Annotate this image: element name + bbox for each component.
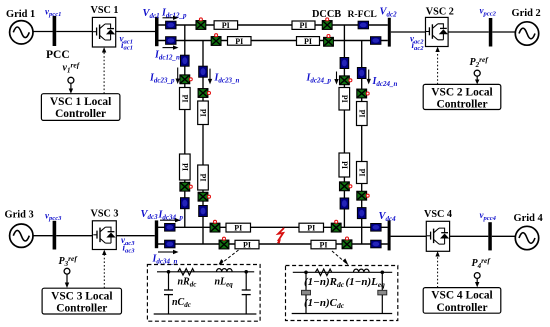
resistor FCL 23p <box>181 55 190 66</box>
resistor FCL 24p lower <box>340 198 349 209</box>
wire G3 to PCC3 <box>33 235 53 237</box>
node PCC bus 1 <box>53 16 57 46</box>
trip indicator <box>208 195 211 198</box>
svg-text:PI: PI <box>199 174 208 182</box>
trip indicator <box>326 18 329 21</box>
capacitor nCdc left <box>164 272 173 314</box>
svg-text:Controller: Controller <box>56 302 107 314</box>
wire VSC1 to DC bus 1 <box>116 31 155 33</box>
converter VSC1 <box>92 17 115 47</box>
resistor FCL 34n left <box>165 240 175 248</box>
resistor R-FCL 12p right <box>358 21 368 29</box>
wire branch 24p vertical <box>343 25 345 227</box>
resistor FCL 24p <box>340 58 349 69</box>
controller VSC1 local <box>41 94 120 121</box>
controller PI 12n right <box>297 37 320 46</box>
svg-text:VSC 4 Local: VSC 4 Local <box>431 290 492 302</box>
svg-text:PI: PI <box>199 109 208 117</box>
arrow Idc24_p <box>334 72 338 85</box>
capacitor 1-nCdc right <box>378 272 387 313</box>
svg-text:R-FCL: R-FCL <box>348 9 377 20</box>
breaker DCCB 24n lower <box>357 191 367 200</box>
svg-text:Grid 2: Grid 2 <box>512 8 541 19</box>
resistor FCL 24n <box>357 68 366 79</box>
breaker DCCB 34n left <box>219 240 229 249</box>
svg-text:PI: PI <box>304 37 312 46</box>
trip indicator <box>199 18 202 21</box>
AC source G1 <box>10 21 33 44</box>
breaker DCCB 12n right <box>324 37 334 46</box>
trip indicator <box>214 220 217 223</box>
wire bus4 to VSC4 <box>391 235 427 237</box>
breaker DCCB 24p lower <box>340 182 350 191</box>
input port P4ref <box>474 273 480 288</box>
fault bolt <box>278 228 284 241</box>
trip indicator <box>208 92 211 95</box>
svg-text:VSC 4: VSC 4 <box>424 209 452 220</box>
breaker DCCB 23n lower <box>198 192 208 201</box>
node DC bus 4 <box>388 220 391 250</box>
wire branch 24n vertical <box>361 41 363 245</box>
capacitor nCdc right <box>242 272 251 314</box>
node inset1 right <box>244 270 248 274</box>
svg-text:PI: PI <box>300 21 308 30</box>
breaker DCCB 24p <box>340 76 350 85</box>
svg-text:VSC 2: VSC 2 <box>426 7 454 18</box>
control dashed VSC1 <box>102 47 106 94</box>
converter VSC4 <box>426 221 449 251</box>
trip indicator <box>349 79 352 82</box>
controller PI 24p lower <box>339 153 350 177</box>
resistor FCL 23p lower <box>181 198 190 209</box>
svg-text:Controller: Controller <box>55 108 106 120</box>
svg-text:VSC 1: VSC 1 <box>91 5 119 16</box>
trip indicator <box>366 92 369 95</box>
breaker DCCB 12n left <box>211 37 221 46</box>
wire bus2 to VSC2 <box>391 31 426 33</box>
node PCC bus 3 <box>53 221 57 250</box>
controller PI 23p upper <box>180 88 191 110</box>
input port P3ref <box>64 268 70 288</box>
wire G1 to PCC1 <box>33 31 53 33</box>
input port P2ref <box>474 70 480 84</box>
trip indicator <box>215 34 218 37</box>
wire PCC4 to G4 <box>492 235 516 237</box>
resistor FCL 34p left <box>165 224 175 232</box>
svg-text:PCC: PCC <box>46 49 70 61</box>
trip indicator <box>346 237 349 240</box>
svg-text:Controller: Controller <box>436 99 487 111</box>
svg-text:Grid 3: Grid 3 <box>5 210 34 221</box>
wire pole12 positive <box>159 24 388 26</box>
capacitor 1-nCdc left <box>302 272 311 313</box>
controller PI 24n upper <box>357 102 368 126</box>
controller PI 12p left <box>214 21 238 30</box>
svg-text:PI: PI <box>180 163 189 171</box>
node inset2 right <box>381 271 385 275</box>
input port v1ref <box>68 77 74 93</box>
annotation arrow right inset <box>332 251 349 266</box>
AC source G2 <box>515 22 538 45</box>
resistor FCL 23n <box>199 66 208 77</box>
wire inset2 top <box>293 271 392 273</box>
node inset2 left <box>304 271 308 275</box>
svg-text:PI: PI <box>340 161 349 169</box>
arrow Idc24_n <box>367 70 371 85</box>
controller PI 23n upper <box>198 101 209 125</box>
AC source G3 <box>10 224 33 247</box>
breaker DCCB 23p <box>180 75 190 84</box>
trip indicator <box>189 185 192 188</box>
svg-text:Controller: Controller <box>436 302 487 314</box>
svg-text:PI: PI <box>357 110 366 118</box>
svg-text:Grid 1: Grid 1 <box>6 9 35 20</box>
arrow Idc34_p <box>160 218 181 222</box>
controller PI 34n right <box>311 240 336 249</box>
svg-text:PI: PI <box>307 223 315 232</box>
svg-text:PI: PI <box>234 223 242 232</box>
svg-text:VSC 3 Local: VSC 3 Local <box>51 290 112 302</box>
trip indicator <box>327 35 330 38</box>
breaker DCCB 34p right <box>331 223 341 232</box>
trip indicator <box>189 78 192 81</box>
wire VSC4 to PCC4 <box>450 235 489 237</box>
svg-text:PI: PI <box>235 37 243 46</box>
breaker DCCB 24n <box>357 89 367 98</box>
svg-text:VSC 3: VSC 3 <box>91 209 119 220</box>
controller PI 12p right <box>292 21 315 30</box>
node inset1 left <box>167 270 171 274</box>
node PCC bus 2 <box>489 18 493 47</box>
inductor 1-nLeq <box>354 269 370 272</box>
svg-text:PI: PI <box>180 95 189 103</box>
svg-text:PI: PI <box>320 240 328 249</box>
arrow Idc34_n <box>158 250 179 254</box>
wire PCC3 to VSC3 <box>56 235 92 237</box>
breaker DCCB 23n <box>198 89 208 98</box>
control dashed VSC3 <box>102 250 106 289</box>
converter VSC2 <box>426 17 449 46</box>
svg-text:PI: PI <box>243 240 251 249</box>
equivalent box nline <box>147 265 260 322</box>
controller PI 24n lower <box>357 162 368 184</box>
wire branch 23p vertical <box>184 25 186 227</box>
wire pole34 negative <box>158 243 388 245</box>
arrow Idc12_n <box>163 45 179 49</box>
wire inset1 top <box>157 271 254 273</box>
wire VSC3 to bus3 <box>116 235 155 237</box>
node DC bus 1 <box>155 17 159 46</box>
controller PI 23n lower <box>198 165 209 190</box>
resistor FCL 34n right <box>371 240 381 248</box>
wire inset1 bottom <box>154 313 257 315</box>
annotation arrow left inset <box>218 250 239 266</box>
svg-text:VSC 1 Local: VSC 1 Local <box>50 96 111 108</box>
equivalent box 1-n line <box>286 266 398 321</box>
arrow Idc12_p <box>163 16 179 20</box>
resistor R-FCL 12n right <box>371 37 381 45</box>
resistor R-FCL 12p left <box>166 21 176 29</box>
trip indicator <box>366 194 369 197</box>
wire branch 23n vertical <box>202 41 204 245</box>
breaker DCCB 23p lower <box>180 182 190 191</box>
svg-text:VSC 2 Local: VSC 2 Local <box>431 86 492 98</box>
breaker DCCB 12p right <box>322 21 332 30</box>
controller PI 34n left <box>235 240 259 249</box>
controller PI 34p right <box>299 223 324 232</box>
controller PI 12n left <box>228 37 252 46</box>
breaker DCCB 12p left <box>196 21 206 30</box>
svg-text:PI: PI <box>340 95 349 103</box>
breaker DCCB 34p left <box>210 223 220 232</box>
arrow Idc23_n <box>208 69 212 85</box>
node DC bus 2 <box>388 18 391 47</box>
converter VSC3 <box>92 221 116 250</box>
inductor nLeq <box>217 269 233 272</box>
wire PCC2 to G2 <box>492 31 515 33</box>
AC source G4 <box>515 226 538 249</box>
resistor R-FCL 12n left <box>166 37 176 45</box>
controller VSC2 local <box>423 84 501 110</box>
svg-text:Grid 4: Grid 4 <box>514 213 543 224</box>
resistor 1-nRdc <box>315 269 331 275</box>
resistor nRdc <box>178 269 194 275</box>
node PCC bus 4 <box>488 222 492 250</box>
svg-text:PI: PI <box>357 169 366 177</box>
resistor FCL 24n lower <box>357 208 366 219</box>
control dashed VSC2 <box>435 47 439 85</box>
control dashed VSC4 <box>435 251 439 288</box>
wire inset2 bottom <box>292 313 393 315</box>
wire PCC1 to VSC1 <box>56 31 92 33</box>
controller VSC4 local <box>423 288 501 314</box>
controller PI 23p lower <box>180 154 191 180</box>
trip indicator <box>223 237 226 240</box>
wire pole34 positive <box>158 226 388 228</box>
wire VSC2 to PCC2 <box>448 31 489 33</box>
fault bolt head <box>277 239 281 244</box>
svg-text:PI: PI <box>222 21 230 30</box>
trip indicator <box>335 220 338 223</box>
controller VSC3 local <box>42 288 121 314</box>
resistor FCL 34p right <box>371 224 381 232</box>
resistor FCL 23n lower <box>199 206 208 217</box>
breaker DCCB 34n right <box>342 240 352 249</box>
node DC bus 3 <box>155 220 158 248</box>
trip indicator <box>349 185 352 188</box>
arrow Idc23_p <box>176 68 180 85</box>
controller PI 34p left <box>226 223 251 232</box>
controller PI 24p upper <box>339 88 350 111</box>
wire pole12 negative <box>159 40 388 42</box>
